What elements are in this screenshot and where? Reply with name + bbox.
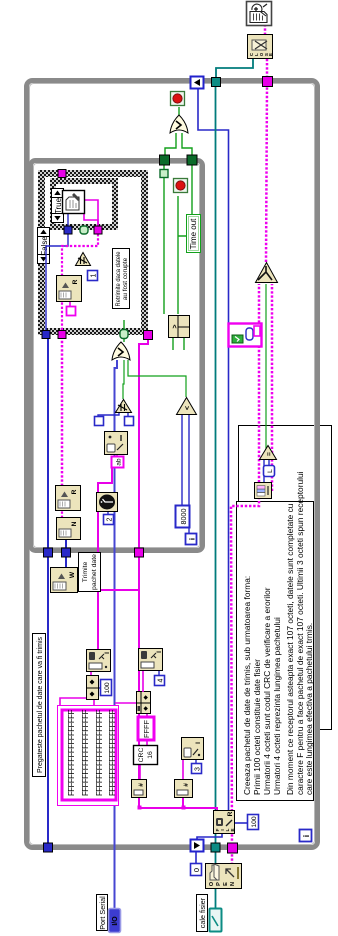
svg-text:i: i [302, 835, 311, 837]
constant: 0 [191, 864, 202, 876]
node: write file icon in True case [63, 191, 85, 214]
svg-text:Urmatorii 4 octeti sunt codul: Urmatorii 4 octeti sunt codul CRC de ver… [262, 587, 272, 795]
svg-text:>: > [172, 324, 179, 328]
svg-text:16: 16 [147, 751, 154, 759]
tunnel: case False right error [58, 170, 66, 178]
wire: OR gate to case tunnel green [123, 335, 125, 342]
svg-text:=: = [266, 452, 273, 456]
node: string length G [175, 780, 193, 798]
node: greater select box [169, 316, 190, 339]
wire: error dashed bottom run [231, 853, 234, 865]
tunnel: blue inner left 2 [62, 548, 71, 557]
terminal: stop condition outer loop [171, 92, 185, 106]
svg-text:100: 100 [104, 682, 111, 694]
svg-text:3: 3 [195, 767, 202, 771]
svg-text:W: W [69, 571, 76, 578]
svg-text:I: I [156, 651, 163, 653]
constant: FF array [58, 706, 119, 806]
wire: blue along Y=47 into case tunnels [47, 335, 49, 844]
label: Pregateste pachetul [33, 634, 46, 777]
svg-text:R: R [71, 489, 78, 494]
svg-text:care este lungimea efectiva a: care este lungimea efectiva a pachetului… [304, 623, 314, 795]
constant: error cluster [229, 324, 262, 347]
wire: greens to loop edge and stop [163, 177, 165, 314]
svg-text:CRC: CRC [138, 748, 145, 763]
wire: error dashed upper run through case [65, 540, 67, 568]
wire: magenta string from file read to packet nodes and loop tunnel [139, 557, 217, 811]
tunnel: case True blue [64, 226, 72, 234]
constant: length compare [264, 466, 275, 477]
wire: magenta packet string to W node and right side [98, 468, 112, 650]
terminal: shift register right [191, 77, 204, 89]
constant: 100 (file count) [248, 815, 259, 830]
tunnel: teal outer left [211, 843, 220, 852]
svg-text:0: 0 [192, 868, 201, 872]
tunnel: blue inner left 1 [44, 548, 53, 557]
case structure False (hatched border) [38, 170, 148, 335]
node: VISA read R [56, 486, 81, 511]
svg-text:FFFFFFFFFFFFFFFFFFFF: FFFFFFFFFFFFFFFFFFFF [95, 710, 104, 796]
tunnel: case False magenta corner [144, 331, 153, 340]
wire: misc short blue stubs [197, 834, 222, 840]
terminal: inner loop iteration i [186, 534, 197, 545]
wire: magenta array to builder [60, 698, 86, 705]
svg-text:ab: ab [116, 458, 123, 466]
svg-text:FFFFFFFFFFFFFFFFFFFF: FFFFFFFFFFFFFFFFFFFF [67, 710, 76, 796]
case selector label True [52, 189, 64, 223]
svg-text:FFFFFFFFFFFFFFFFFFFF: FFFFFFFFFFFFFFFFFFFF [81, 710, 90, 796]
outer while loop [27, 81, 318, 848]
node: VISA bytes at port N [57, 518, 81, 540]
svg-text:O: O [209, 881, 215, 886]
constant: 100 (subset) [101, 680, 112, 696]
tunnel: teal outer right [212, 78, 221, 87]
constant: pink string D [67, 307, 76, 316]
constant: pink string [112, 457, 124, 468]
svg-text:i: i [188, 538, 197, 540]
svg-text:cale fisier: cale fisier [198, 897, 207, 928]
wire: count to right shift register [198, 88, 229, 811]
svg-text:Trimite: Trimite [82, 562, 89, 583]
node: less comparison [177, 398, 197, 415]
svg-text:Creeaza pachetul de date de tr: Creeaza pachetul de date de trimis, sub … [242, 576, 252, 795]
node: simple error handler [247, 2, 272, 26]
node: VISA read ack [57, 276, 82, 302]
svg-text:1: 1 [91, 273, 98, 277]
terminal: stop condition inner loop [174, 179, 188, 193]
wire: 4 to C blue [158, 671, 160, 676]
svg-text:P: P [216, 882, 222, 886]
node: OPEN file [206, 864, 242, 889]
node: builder B [86, 676, 99, 700]
node: OR gate 2 [170, 115, 188, 133]
svg-text:Port Serial: Port Serial [98, 896, 107, 930]
constant: F byte 1 [95, 417, 104, 426]
constant: FFFF [138, 717, 154, 740]
svg-text:4: 4 [158, 678, 165, 682]
svg-text:<: < [185, 406, 192, 410]
tunnel: error outer right [263, 77, 273, 87]
svg-text:E: E [223, 882, 229, 886]
svg-text:#: # [138, 783, 145, 787]
control: cale fisier [197, 895, 222, 932]
node: join D [136, 692, 151, 715]
svg-text:Retrimite daca datele: Retrimite daca datele [115, 251, 122, 306]
node: string subset A [87, 650, 112, 672]
tunnel: error outer left [228, 843, 238, 853]
constant: 1 [88, 271, 98, 281]
node: comment box B [239, 426, 332, 730]
svg-text:pachet date: pachet date [91, 554, 98, 590]
tunnel: green inner right 2 [187, 155, 197, 165]
tunnel: blue outer left [44, 843, 53, 852]
tunnel: case False error [58, 331, 66, 339]
wire: D to C magenta [142, 671, 144, 692]
node: to hex string E [182, 738, 204, 760]
svg-text:Pregateste pachetul de date ca: Pregateste pachetul de date care va fi t… [35, 637, 44, 773]
label: Retrimite daca datele [113, 249, 130, 309]
tunnel: case True green [80, 226, 88, 234]
label: Trimite pachet date [79, 553, 101, 592]
svg-text:Din moment ce receptorul astea: Din moment ce receptorul asteapta exact … [285, 503, 295, 795]
node: read FILE [214, 811, 237, 834]
case structure True (nested, hatched border) [50, 178, 118, 230]
label: comment paragraph 2 [285, 471, 314, 795]
svg-text:N: N [230, 882, 236, 886]
terminal: outer loop iteration i [300, 830, 312, 842]
constant: 8000 [176, 506, 190, 528]
node: OR gate 1 [112, 342, 130, 360]
svg-text:2: 2 [107, 517, 114, 521]
svg-text:Primii 100 octeti constituie d: Primii 100 octeti constituie date fisier [252, 659, 262, 795]
node: not equal in case [76, 253, 91, 266]
svg-text:True: True [54, 197, 63, 214]
node: string length F [132, 780, 147, 798]
svg-text:au fost corupte: au fost corupte [122, 257, 129, 300]
label: Time out [187, 215, 201, 253]
svg-text:Urmatori 4 octeti reprezinta l: Urmatori 4 octeti reprezinta lungimea pa… [272, 617, 282, 795]
svg-text:I: I [195, 742, 202, 744]
svg-text:I: I [104, 652, 111, 654]
constant: 3 [192, 764, 202, 774]
svg-text:Time out: Time out [189, 218, 198, 250]
node: comment box A [237, 502, 314, 801]
label: comment paragraph 1 [242, 576, 282, 795]
tunnel: case False green [120, 330, 128, 339]
wire: boolean comparisons to OR gate [181, 415, 183, 506]
svg-text:L: L [267, 469, 274, 473]
node: close file [248, 35, 274, 59]
svg-text:FFFF: FFFF [142, 719, 151, 738]
svg-text:E: E [230, 828, 236, 832]
node: replace substring C [139, 649, 164, 671]
node: merge errors [256, 263, 278, 283]
tunnel: case False blue [42, 331, 50, 339]
tunnel: magenta inner left [135, 548, 144, 557]
node: equal comparison [260, 446, 277, 460]
node: array size (bottom) [255, 483, 272, 499]
tunnel: case True magenta [94, 226, 102, 234]
constant: 4 [155, 676, 165, 686]
wire: Port Serial to comparison (VISA resource) [115, 360, 118, 909]
tunnel: green inner right 1 [160, 155, 170, 165]
node: CRC 16 subVI [134, 746, 158, 765]
inner while loop [31, 161, 203, 551]
control: Port Serial [97, 895, 121, 933]
constant: 2 (wait) [104, 515, 114, 525]
constant: F byte 2 [125, 417, 134, 426]
node: VISA write W [51, 568, 78, 593]
case selector label False [38, 228, 50, 264]
svg-text:N: N [71, 521, 78, 526]
svg-text:8000: 8000 [179, 509, 188, 525]
tunnel: case False right green [160, 170, 168, 178]
wire: magenta stubs in case [69, 302, 71, 307]
svg-text:100: 100 [251, 816, 258, 828]
terminal: shift register left [191, 840, 204, 852]
svg-text:E: E [268, 53, 273, 56]
svg-text:R: R [72, 279, 79, 284]
svg-text:FFFFFFFFFFFFFFFFFFFF: FFFFFFFFFFFFFFFFFFFF [108, 710, 117, 796]
node: type cast [105, 432, 128, 455]
wire: teal file refnum long run [215, 86, 217, 909]
node: not equal comparison [116, 400, 132, 413]
wire: magenta chain in CRC cluster [139, 765, 141, 780]
node: wait ms metronome [97, 493, 118, 512]
svg-text:R: R [227, 811, 234, 816]
svg-text:#: # [183, 783, 190, 787]
svg-text:I/O: I/O [112, 916, 119, 926]
